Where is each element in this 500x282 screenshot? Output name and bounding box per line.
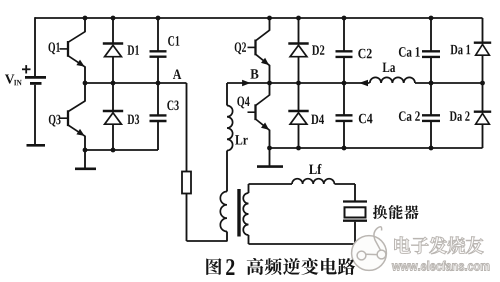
diode D1 (112, 18, 114, 44)
D1 label (127, 45, 139, 54)
diode Da2 (482, 83, 484, 112)
diode D2 (298, 18, 300, 44)
capacitor Ca2 (430, 83, 432, 115)
node A rail (85, 82, 187, 84)
caption 图2 高频逆变电路 (206, 258, 221, 275)
output loop top wire (249, 183, 293, 185)
current arrow into La (359, 80, 368, 87)
right bottom rail (270, 147, 483, 149)
D2 label (312, 45, 324, 54)
node B rail with current arrow (227, 82, 370, 84)
transformer secondary winding (248, 184, 250, 193)
La label (383, 63, 396, 73)
Ca2 label (399, 111, 420, 121)
Da2 label (450, 111, 470, 121)
diode D3 (112, 83, 114, 111)
watermark url (392, 261, 489, 271)
diode Da1 (482, 18, 484, 43)
ground (left bridge leg) (84, 150, 86, 168)
transformer core (237, 189, 240, 237)
inductor Lf (292, 179, 334, 184)
node A junction at Q1/Q3 (83, 81, 88, 86)
ground (right bridge leg) (269, 148, 271, 167)
transformer primary winding (220, 192, 227, 232)
left bottom rail (85, 149, 158, 151)
watermark logo (352, 227, 387, 271)
transducer label 换能器 (373, 205, 387, 219)
transistor Q1 (67, 41, 69, 57)
transducer crystal symbol (343, 200, 367, 202)
resistor (sense) (182, 172, 191, 194)
capacitor C2 (343, 18, 345, 51)
D3 label (127, 115, 139, 125)
C3 label (167, 101, 178, 111)
transistor Q4 (254, 104, 256, 120)
inductor Lr (226, 83, 228, 106)
output loop bottom wire (249, 243, 356, 245)
capacitor C4 (343, 83, 345, 115)
D4 label (311, 115, 324, 124)
top power rail (35, 17, 483, 19)
capacitor C3 (157, 83, 159, 115)
diode D4 (298, 83, 300, 111)
C2 label (358, 49, 371, 59)
node B label (250, 69, 258, 78)
VIN label (5, 75, 14, 84)
Q2 label (235, 42, 246, 54)
wire resistor to transformer primary bottom (186, 194, 188, 242)
transistor Q2 (254, 40, 256, 56)
ground (VIN negative) (27, 144, 46, 147)
Da1 label (450, 45, 470, 55)
Q4 label (237, 97, 249, 109)
battery VIN (34, 17, 36, 76)
VIN plus sign (22, 68, 31, 70)
wire node A to resistor (186, 83, 188, 172)
Q3 label (49, 115, 61, 127)
node A label (173, 70, 181, 79)
output loop right wire (354, 184, 356, 201)
Q1 label (48, 42, 59, 54)
Lf label (309, 164, 322, 174)
inductor La (370, 77, 415, 83)
transistor Q3 (67, 110, 69, 126)
Ca1 label (399, 47, 420, 57)
Lr label (235, 135, 248, 144)
watermark text 电子发烧友 (394, 237, 410, 254)
capacitor Ca1 (430, 18, 432, 51)
capacitor C1 (157, 18, 159, 51)
C1 label (168, 36, 179, 46)
C4 label (359, 114, 373, 124)
mid rail from La to Ca/Da (415, 82, 483, 84)
